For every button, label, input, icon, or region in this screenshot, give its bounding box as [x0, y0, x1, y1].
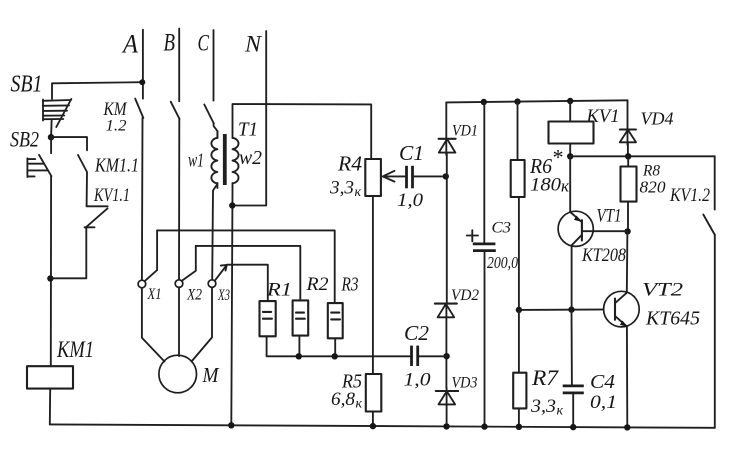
node junction dot VT1 base / R8 — [624, 228, 630, 234]
svg-text:R4: R4 — [337, 152, 363, 176]
svg-text:SB2: SB2 — [10, 127, 39, 152]
resistor R2 — [293, 300, 309, 335]
wire base line to VT2 — [519, 308, 615, 311]
svg-text:KM1: KM1 — [56, 337, 94, 362]
diode VD1 — [439, 102, 456, 303]
node junction dot bus/R6 — [514, 98, 520, 104]
wire phase C vertical — [213, 30, 215, 101]
svg-text:1,0: 1,0 — [397, 190, 424, 211]
wire phase C to w1 top — [214, 124, 218, 138]
wire R8 node down to VT2 collector — [626, 231, 629, 292]
svg-text:VD2: VD2 — [451, 287, 479, 304]
svg-text:3,3: 3,3 — [329, 178, 354, 199]
contact X2 — [175, 246, 196, 288]
svg-text:6,8: 6,8 — [331, 389, 356, 410]
svg-text:N: N — [244, 32, 263, 57]
wire phase A vertical — [142, 30, 144, 99]
transformer winding w1 — [211, 131, 217, 188]
wire R4 to R5 — [372, 196, 374, 374]
svg-text:KV1.2: KV1.2 — [669, 185, 710, 206]
svg-text:C2: C2 — [404, 321, 430, 345]
wire KV1 bottom to KV1.2 branch — [570, 155, 715, 157]
svg-text:VT2: VT2 — [642, 280, 684, 301]
svg-text:w2: w2 — [239, 147, 262, 169]
svg-text:VT1: VT1 — [597, 206, 622, 227]
motor M — [159, 355, 197, 393]
node junction dot bus/C3 — [481, 423, 487, 429]
node junction dot KV1 bottom — [567, 153, 573, 159]
svg-text:KV1: KV1 — [586, 106, 620, 127]
pushbutton SB2 symbol — [27, 137, 51, 177]
wire R1 R2 R3 bottoms to C2 — [267, 336, 410, 356]
wire X2 to R2 top — [196, 246, 300, 301]
relay coil KV1 — [549, 101, 594, 156]
contact KV1.2 — [703, 156, 715, 428]
svg-text:к: к — [561, 177, 570, 196]
wire phase N vertical and link to w2 bottom — [233, 31, 266, 206]
wire w2 bottom to bus — [231, 188, 232, 425]
svg-text:KT208: KT208 — [581, 245, 626, 266]
node junction dot bus/VT2 emitter — [624, 424, 630, 430]
svg-text:0,1: 0,1 — [590, 392, 617, 413]
svg-text:1,0: 1,0 — [404, 370, 432, 391]
node junction dot R6/R7/base wire — [516, 307, 522, 313]
svg-text:VD4: VD4 — [641, 109, 674, 129]
node junction dot R3 bottom — [332, 353, 338, 359]
svg-text:C4: C4 — [590, 371, 615, 393]
node junction dot VT1 collector / C4 — [568, 306, 574, 312]
wire X1 to R3 top — [157, 230, 335, 303]
pushbutton SB1 symbol — [43, 99, 72, 127]
diode VD2 — [435, 304, 457, 388]
capacitor C2 — [412, 346, 447, 366]
capacitor C3 — [473, 102, 496, 427]
wire SB2 node to KM1.1 branch — [51, 137, 87, 150]
node junction dot C1/VD1 — [443, 173, 449, 179]
wire top supply bus — [446, 100, 627, 102]
svg-text:820: 820 — [640, 178, 667, 197]
svg-text:C: C — [198, 31, 210, 56]
svg-text:к: к — [355, 185, 362, 200]
resistor R5 — [366, 374, 382, 412]
node junction dot bus/KV1 — [567, 98, 573, 104]
contact KV1.1 (normally closed) — [85, 206, 108, 227]
wire phase B to X2 — [178, 119, 180, 280]
wire w2 top to R4 — [233, 104, 372, 159]
node junction dot C2/VD2 — [443, 353, 449, 359]
diode VD4 — [620, 100, 636, 156]
node junction dot bus/w2 — [228, 422, 234, 428]
svg-text:X3: X3 — [217, 287, 230, 304]
wire SB1 bottom lead — [50, 120, 53, 137]
wire phase A to X1 — [141, 118, 144, 280]
svg-text:1.2: 1.2 — [106, 118, 127, 135]
svg-text:к: к — [557, 404, 564, 419]
svg-text:180: 180 — [530, 175, 562, 196]
resistor R8 — [621, 156, 637, 231]
svg-text:200,0: 200,0 — [487, 253, 518, 272]
node junction dot bus/C4 — [570, 424, 576, 430]
svg-text:3,3: 3,3 — [530, 396, 556, 417]
wire X3 to motor — [192, 287, 213, 361]
svg-text:VD1: VD1 — [452, 123, 478, 140]
transformer core — [223, 134, 227, 185]
diode VD3 — [436, 388, 458, 427]
node junction dot bus/VD3 — [443, 423, 449, 429]
svg-text:KV1.1: KV1.1 — [93, 186, 130, 206]
transistor VT2 (NPN KT645) — [604, 291, 640, 427]
svg-text:R1: R1 — [266, 280, 292, 301]
wire KV1 node down to VT1 emitter — [569, 156, 571, 212]
resistor R1 — [260, 301, 276, 336]
svg-text:*: * — [552, 145, 563, 170]
resistor R4 — [365, 159, 381, 196]
wire phase B vertical — [178, 29, 180, 102]
wire X3 to R1 top — [227, 265, 268, 301]
svg-text:X2: X2 — [186, 287, 202, 304]
node junction dot SB2 — [48, 134, 54, 140]
svg-text:к: к — [356, 397, 363, 412]
node junction dot bus/R7 — [516, 424, 522, 430]
wire SB2 to KM1 coil — [50, 176, 52, 366]
capacitor C1 with wiper arrow into R4 — [383, 166, 446, 189]
svg-text:VD3: VD3 — [452, 375, 478, 392]
node junction dot KV1.1 return — [47, 275, 53, 281]
svg-text:B: B — [164, 30, 176, 57]
svg-text:w1: w1 — [188, 150, 204, 172]
wire bottom bus — [50, 424, 715, 427]
contact X1 — [138, 230, 157, 287]
wire X1 to motor — [142, 288, 165, 362]
svg-text:SB1: SB1 — [11, 72, 43, 98]
resistor R3 — [328, 303, 343, 338]
contact KM1.1 — [78, 155, 87, 206]
node junction dot bus/R5 — [370, 423, 376, 429]
svg-text:KM1.1: KM1.1 — [94, 155, 139, 177]
svg-text:R3: R3 — [341, 274, 359, 296]
contact KM1.2 phase A — [135, 99, 143, 118]
svg-text:X1: X1 — [147, 286, 162, 303]
svg-text:C1: C1 — [399, 141, 424, 165]
node junction dot bus/C3 — [481, 99, 487, 105]
wire w1 bottom to X3 — [212, 184, 217, 280]
svg-text:KT645: KT645 — [645, 308, 700, 330]
resistor R6 — [511, 102, 525, 310]
svg-text:M: M — [202, 363, 220, 387]
contact KM1.2 phase C — [204, 105, 214, 124]
wire X2 to motor — [178, 287, 180, 356]
svg-text:C3: C3 — [492, 220, 512, 237]
wire SB1 top to phase A — [52, 82, 142, 99]
svg-text:R7: R7 — [531, 365, 559, 390]
relay coil KM1 — [27, 366, 73, 424]
node junction dot w2/N — [229, 202, 235, 208]
node junction dot R2 bottom — [296, 353, 302, 359]
capacitor C3 polarity plus — [467, 230, 478, 241]
svg-text:T1: T1 — [238, 119, 258, 141]
node junction dot A/SB1 — [139, 79, 145, 85]
wire R5 to bus — [372, 412, 374, 427]
contact KM1.2 phase B — [171, 102, 180, 119]
node junction dot VD4/R8 — [625, 153, 631, 159]
capacitor C4 — [563, 310, 584, 428]
wire KV1.1 bottom to left column — [50, 228, 86, 279]
contact X3 with arrow — [208, 265, 227, 288]
svg-text:A: A — [121, 30, 138, 59]
resistor R7 — [513, 310, 526, 427]
transistor VT1 (PNP KT208) — [558, 211, 627, 309]
transformer winding w2 — [233, 132, 239, 189]
svg-text:R2: R2 — [305, 274, 329, 295]
